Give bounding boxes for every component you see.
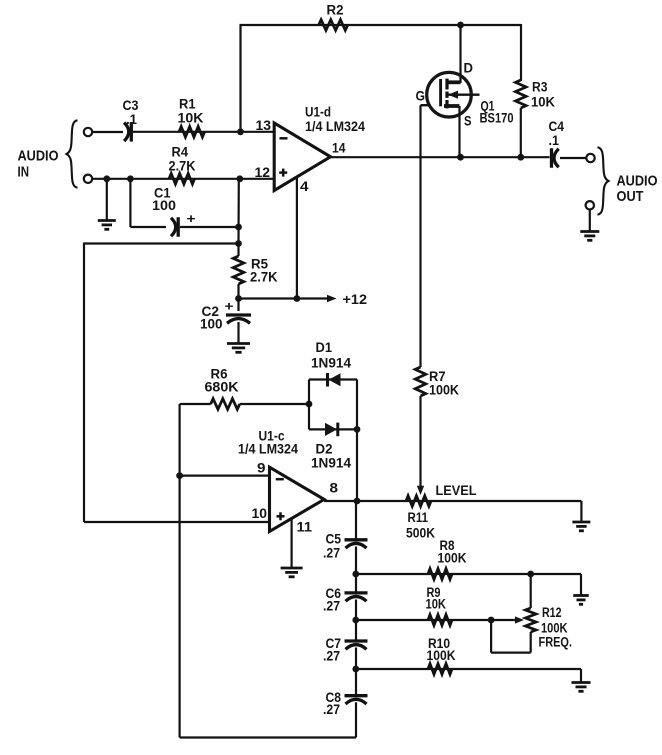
svg-text:100: 100 bbox=[200, 317, 223, 332]
svg-text:G: G bbox=[416, 89, 426, 104]
svg-text:1/4 LM324: 1/4 LM324 bbox=[305, 119, 365, 134]
wire R9 line bbox=[356, 619, 491, 621]
svg-text:FREQ.: FREQ. bbox=[539, 635, 573, 650]
capacitor C8 bbox=[323, 669, 368, 717]
ground below input bbox=[98, 179, 116, 230]
wire top feedback from R2 line left leg bbox=[240, 25, 522, 132]
node source junction bbox=[457, 154, 464, 161]
wire R6 left leg bbox=[180, 404, 211, 476]
wire R3 bottom lead bbox=[520, 108, 522, 157]
svg-text:BS170: BS170 bbox=[480, 111, 514, 126]
wire R8 line bbox=[356, 573, 581, 575]
node output chain junction bbox=[354, 498, 361, 505]
wire input bottom line bbox=[92, 178, 240, 180]
capacitor C3 bbox=[123, 98, 139, 142]
wire C1 to vertical bbox=[180, 226, 239, 228]
svg-text:C4: C4 bbox=[549, 119, 565, 134]
svg-text:10K: 10K bbox=[531, 95, 555, 110]
svg-text:LEVEL: LEVEL bbox=[436, 483, 477, 498]
wire C4 to output terminal bbox=[560, 157, 586, 159]
wire chain C5 top bbox=[356, 501, 357, 540]
resistor R7 bbox=[415, 367, 459, 398]
wire drain lead bbox=[459, 25, 461, 83]
svg-text:4: 4 bbox=[300, 179, 309, 194]
resistor R12 potentiometer bbox=[525, 574, 572, 653]
svg-text:10K: 10K bbox=[178, 111, 204, 126]
wire R7 to wiper arrow bbox=[417, 396, 424, 495]
node input brace bbox=[67, 120, 78, 187]
wire pin13 into op-amp bbox=[241, 131, 275, 133]
resistor R11 potentiometer bbox=[406, 496, 435, 541]
svg-text:.27: .27 bbox=[323, 649, 340, 664]
svg-text:1N914: 1N914 bbox=[311, 356, 351, 371]
wire feedback to pin10 of U1-c bbox=[84, 243, 269, 523]
svg-text:100K: 100K bbox=[541, 621, 568, 636]
wire C1 branch down bbox=[130, 179, 166, 227]
wire +12 rail bbox=[239, 297, 329, 299]
node LEVEL label bbox=[436, 483, 477, 498]
resistor R3 bbox=[516, 80, 556, 110]
svg-text:100: 100 bbox=[152, 198, 176, 213]
wire C3 to R1 to pin13 bbox=[133, 131, 241, 133]
svg-text:.1: .1 bbox=[126, 112, 137, 127]
svg-text:.1: .1 bbox=[549, 133, 560, 148]
wire R5 top bbox=[237, 244, 239, 257]
node pin9 junction bbox=[176, 472, 183, 479]
svg-text:100K: 100K bbox=[427, 648, 456, 663]
resistor R9 bbox=[426, 585, 453, 625]
wire R2 right leg to R3 bbox=[520, 24, 522, 81]
ground R10 right bbox=[572, 669, 591, 691]
svg-text:D2: D2 bbox=[316, 442, 333, 457]
node R3 bottom junction bbox=[517, 154, 524, 161]
svg-text:R11: R11 bbox=[408, 510, 429, 525]
svg-text:100K: 100K bbox=[438, 551, 467, 566]
svg-text:R4: R4 bbox=[172, 145, 189, 160]
node C1 right junction bbox=[235, 224, 242, 231]
node output brace bbox=[598, 147, 609, 214]
node feedback junction bbox=[235, 240, 242, 247]
wire C8 to bottom rail bbox=[180, 702, 356, 737]
node drain junction bbox=[457, 22, 464, 29]
svg-text:.27: .27 bbox=[323, 599, 340, 614]
svg-text:2.7K: 2.7K bbox=[250, 270, 278, 285]
svg-text:500K: 500K bbox=[406, 526, 435, 541]
node R6 right junction bbox=[306, 401, 313, 408]
svg-text:10K: 10K bbox=[426, 597, 447, 612]
svg-text:R3: R3 bbox=[532, 80, 548, 95]
resistor R8 bbox=[428, 538, 467, 579]
svg-text:1N914: 1N914 bbox=[311, 456, 351, 471]
node R8 junction bbox=[352, 571, 359, 578]
capacitor C1 bbox=[152, 186, 196, 237]
ground below C2 bbox=[227, 322, 250, 352]
node output terminal bottom bbox=[586, 201, 594, 209]
svg-text:680K: 680K bbox=[205, 380, 239, 395]
resistor R5 bbox=[233, 256, 278, 285]
svg-text:12: 12 bbox=[255, 165, 271, 180]
wire R5 bottom bbox=[237, 284, 239, 299]
resistor R4 bbox=[169, 145, 196, 185]
op-amp U1-d bbox=[255, 105, 366, 195]
node input bottom junction bbox=[103, 175, 110, 182]
ground LEVEL right bbox=[572, 501, 590, 531]
ground pin11 bbox=[281, 518, 303, 576]
svg-text:IN: IN bbox=[18, 164, 30, 181]
ground below output terminal bbox=[580, 210, 599, 241]
wire C6 to R9 line bbox=[355, 600, 357, 621]
svg-text:D: D bbox=[464, 61, 474, 76]
svg-text:.27: .27 bbox=[323, 702, 340, 717]
wire D loop left bbox=[308, 380, 310, 430]
capacitor C6 bbox=[323, 574, 368, 614]
svg-text:13: 13 bbox=[256, 118, 272, 133]
svg-text:11: 11 bbox=[297, 520, 313, 535]
wire U1-c output line bbox=[324, 500, 581, 502]
wire R6 right to D junction bbox=[240, 403, 309, 405]
node +12 arrow and label bbox=[327, 292, 367, 307]
svg-text:C3: C3 bbox=[123, 98, 139, 113]
resistor R10 bbox=[427, 636, 456, 674]
svg-text:100K: 100K bbox=[429, 383, 459, 398]
node C1 branch junction bbox=[127, 175, 134, 182]
node R9 junction bbox=[352, 617, 359, 624]
wire pin9 line bbox=[180, 475, 270, 477]
wire source lead bbox=[460, 106, 461, 157]
node pin4 junction bbox=[294, 295, 301, 302]
diode D2 bbox=[309, 423, 357, 471]
node R9 right junction bbox=[488, 617, 495, 624]
node input terminal bottom bbox=[84, 175, 92, 183]
wire D loop right bbox=[356, 380, 358, 502]
resistor R1 bbox=[178, 97, 205, 138]
diode D1 bbox=[309, 340, 357, 387]
svg-text:AUDIO: AUDIO bbox=[617, 173, 658, 190]
wire R12 bottom loop bbox=[491, 620, 531, 653]
node AUDIO IN label bbox=[18, 148, 59, 181]
node pin13 junction bbox=[237, 128, 244, 135]
node output terminal top bbox=[586, 154, 594, 162]
svg-text:U1-d: U1-d bbox=[305, 105, 331, 120]
svg-text:8: 8 bbox=[330, 481, 339, 496]
node R10 junction bbox=[352, 666, 359, 673]
capacitor C2 bbox=[200, 299, 251, 332]
svg-text:.27: .27 bbox=[323, 546, 340, 561]
svg-text:+: + bbox=[225, 299, 234, 314]
svg-text:C5: C5 bbox=[326, 532, 342, 547]
wire pin12 vertical down bbox=[237, 179, 240, 244]
svg-text:10: 10 bbox=[252, 506, 268, 521]
svg-text:R1: R1 bbox=[179, 97, 196, 112]
svg-text:AUDIO: AUDIO bbox=[18, 148, 59, 165]
transistor Q1 bbox=[416, 61, 514, 129]
resistor R6 bbox=[205, 367, 240, 410]
wire C5 to R8 line bbox=[355, 547, 357, 575]
svg-text:OUT: OUT bbox=[617, 188, 644, 205]
svg-text:2.7K: 2.7K bbox=[169, 159, 196, 174]
wire input top to C3 bbox=[92, 131, 123, 133]
capacitor C4 bbox=[549, 119, 565, 168]
wire R10 line bbox=[356, 668, 581, 670]
svg-text:1/4 LM324: 1/4 LM324 bbox=[238, 442, 298, 457]
capacitor C7 bbox=[323, 620, 368, 664]
svg-text:+12: +12 bbox=[343, 292, 368, 307]
wire pin4 lead bbox=[296, 176, 298, 299]
node R12 wiper arrow bbox=[491, 616, 524, 623]
wire gate lead down to R7 bbox=[419, 105, 421, 367]
ground R8 right bbox=[573, 574, 589, 604]
node AUDIO OUT label bbox=[617, 173, 658, 206]
wire U1-d output line bbox=[331, 156, 550, 158]
wire pin12 into op-amp bbox=[240, 178, 274, 180]
capacitor C5 bbox=[323, 532, 368, 561]
op-amp U1-c bbox=[238, 429, 339, 535]
svg-text:D1: D1 bbox=[316, 340, 333, 355]
node R12 top junction bbox=[527, 571, 534, 578]
svg-text:R12: R12 bbox=[542, 605, 562, 620]
node input terminal top bbox=[84, 128, 92, 136]
svg-text:9: 9 bbox=[257, 461, 266, 476]
resistor R2 bbox=[319, 3, 348, 31]
node +12 junction bbox=[235, 295, 242, 302]
wire C7 to R10 line bbox=[355, 648, 357, 670]
node D2 right junction bbox=[354, 426, 361, 433]
node pin12 junction bbox=[236, 175, 243, 182]
svg-text:R2: R2 bbox=[327, 3, 344, 18]
svg-text:+: + bbox=[187, 211, 196, 226]
svg-text:S: S bbox=[464, 114, 472, 129]
svg-text:14: 14 bbox=[332, 141, 346, 156]
wire pin9 leg down to bottom rail bbox=[179, 476, 181, 738]
